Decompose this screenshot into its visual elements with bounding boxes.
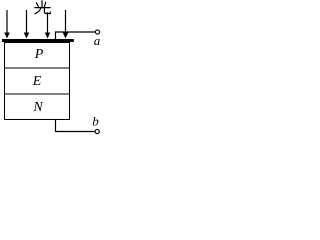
light arrow 1	[4, 10, 10, 39]
light arrow 3	[45, 12, 51, 38]
terminal b circle	[95, 129, 99, 133]
wire bottom electrode to terminal b	[56, 120, 96, 132]
divider P/E	[5, 67, 70, 69]
svg-text:E: E	[32, 74, 42, 89]
svg-text:P: P	[34, 47, 44, 62]
light arrow 2	[24, 10, 30, 39]
wire top electrode to terminal a	[56, 32, 96, 39]
svg-text:a: a	[94, 33, 101, 48]
label 光 (light)	[35, 1, 50, 14]
semiconductor box outline	[5, 43, 70, 120]
terminal a circle	[95, 30, 99, 34]
svg-text:b: b	[92, 114, 99, 129]
svg-text:N: N	[32, 100, 43, 115]
light arrow 4	[63, 10, 69, 39]
top electrode bar	[2, 39, 74, 42]
divider E/N	[5, 93, 70, 95]
